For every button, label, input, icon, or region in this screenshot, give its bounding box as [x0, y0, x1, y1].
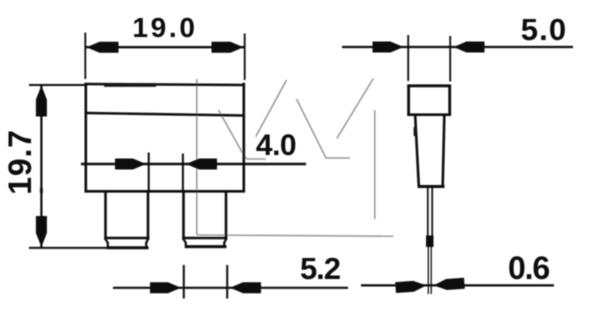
left blade terminal (front view)	[104, 192, 149, 248]
svg-text:4.0: 4.0	[256, 129, 296, 162]
dimension 5.2 (blade width)	[113, 251, 348, 299]
19.7 bottom extension line	[29, 247, 107, 249]
5.2 dimension line	[113, 287, 348, 289]
body bottom edge	[85, 190, 246, 193]
19.0 right extension line	[244, 34, 246, 81]
side taper left edge	[415, 116, 419, 186]
svg-text:5.0: 5.0	[521, 12, 567, 47]
19.7 top extension line	[29, 84, 87, 86]
5.0 right arrowhead (points left)	[454, 42, 485, 53]
watermark M baseline	[197, 235, 394, 236]
right blade tip right side	[223, 242, 225, 247]
left blade tip right side	[145, 242, 147, 248]
right blade tip left chamfer	[184, 239, 186, 243]
scan smudge on body top edge	[104, 83, 156, 87]
left blade left edge	[104, 192, 107, 240]
body left edge	[85, 83, 88, 193]
fuse side view	[407, 85, 451, 241]
dimension 5.0 (side cap width)	[342, 12, 573, 82]
scan smudge on side taper left edge	[414, 127, 417, 136]
19.0 dimension line	[85, 46, 246, 48]
19.7 dimension line	[40, 85, 42, 248]
side cap left edge	[407, 85, 410, 117]
4.0 dimension line	[81, 163, 306, 165]
side taper right edge	[443, 116, 445, 186]
side cap top edge	[407, 84, 451, 87]
5.0 right extension line	[449, 36, 451, 82]
side taper bottom edge	[418, 185, 445, 188]
19.7 bottom arrowhead	[36, 216, 47, 247]
19.0 right arrowhead	[212, 42, 244, 53]
5.0 left extension line	[407, 35, 409, 81]
0.6 dimension line	[361, 284, 554, 286]
svg-text:19.0: 19.0	[132, 12, 197, 43]
watermark M stroke 2 ascending	[256, 80, 287, 137]
watermark M right leg	[374, 110, 376, 219]
svg-text:19.7: 19.7	[2, 129, 38, 194]
watermark M left leg	[196, 79, 198, 235]
19.0 left arrowhead	[87, 42, 119, 53]
left blade tip left side	[107, 242, 109, 248]
right blade bottom edge	[185, 245, 227, 248]
4.0 left extension line	[148, 153, 150, 193]
left blade tip right chamfer	[146, 239, 148, 243]
5.2 left arrowhead (points right)	[150, 282, 181, 293]
fuse body outline (front view)	[85, 83, 246, 193]
scan smudge on 19.7 dimension line	[40, 188, 43, 193]
right blade chamfer line	[182, 237, 227, 239]
side blade tip block	[426, 236, 434, 248]
svg-text:0.6: 0.6	[508, 250, 549, 286]
body divider line	[86, 113, 244, 116]
4.0 right extension line	[182, 154, 184, 193]
left blade chamfer line	[104, 237, 149, 239]
right blade tip left side	[185, 242, 187, 247]
watermark M stroke 4 ascending	[337, 79, 374, 139]
svg-text:5.2: 5.2	[300, 251, 340, 286]
left blade bottom edge	[107, 246, 149, 249]
5.2 right extension line	[226, 265, 228, 299]
dimension 19.7 (body height)	[2, 85, 107, 248]
side blade tip thin right line	[430, 247, 432, 294]
19.0 left extension line	[84, 33, 86, 80]
5.0 dimension line	[342, 46, 573, 48]
5.2 right arrowhead (points left)	[230, 282, 261, 293]
dimension 4.0 (blade gap)	[81, 129, 306, 192]
5.0 left arrowhead (points right)	[373, 42, 404, 53]
4.0 left arrowhead (points right)	[115, 159, 146, 170]
0.6 left arrowhead (points right)	[395, 280, 427, 293]
side blade right line	[431, 188, 433, 240]
5.2 left extension line	[183, 265, 185, 299]
side blade left line	[427, 188, 429, 240]
4.0 right arrowhead (points left)	[186, 159, 217, 170]
side cap bottom edge	[407, 113, 451, 116]
watermark M stroke 1 descending with foot	[219, 110, 267, 159]
right blade right edge	[225, 192, 228, 240]
0.6 right arrowhead (points left)	[433, 278, 465, 291]
body top edge	[85, 84, 246, 85]
19.7 top arrowhead	[36, 86, 47, 117]
right blade tip right chamfer	[224, 239, 226, 243]
left blade right edge	[147, 192, 150, 240]
right blade left edge	[182, 192, 185, 240]
watermark M stroke 3 descending with foot	[297, 99, 351, 158]
dimension 0.6 (blade thickness)	[361, 250, 554, 293]
side cap right edge	[448, 85, 451, 117]
side blade tip thin left line	[427, 247, 429, 294]
body right edge	[243, 83, 246, 193]
right blade terminal (front view)	[182, 192, 227, 247]
dimension 19.0 (body width)	[85, 12, 246, 80]
left blade tip left chamfer	[106, 239, 108, 243]
